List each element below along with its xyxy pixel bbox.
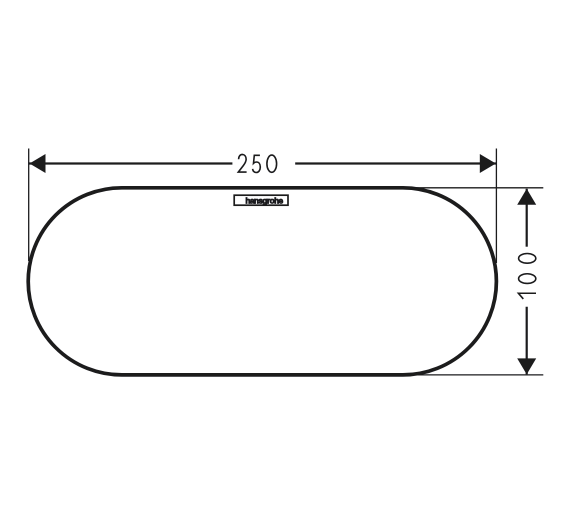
svg-text:hansgrohe: hansgrohe (245, 196, 283, 205)
